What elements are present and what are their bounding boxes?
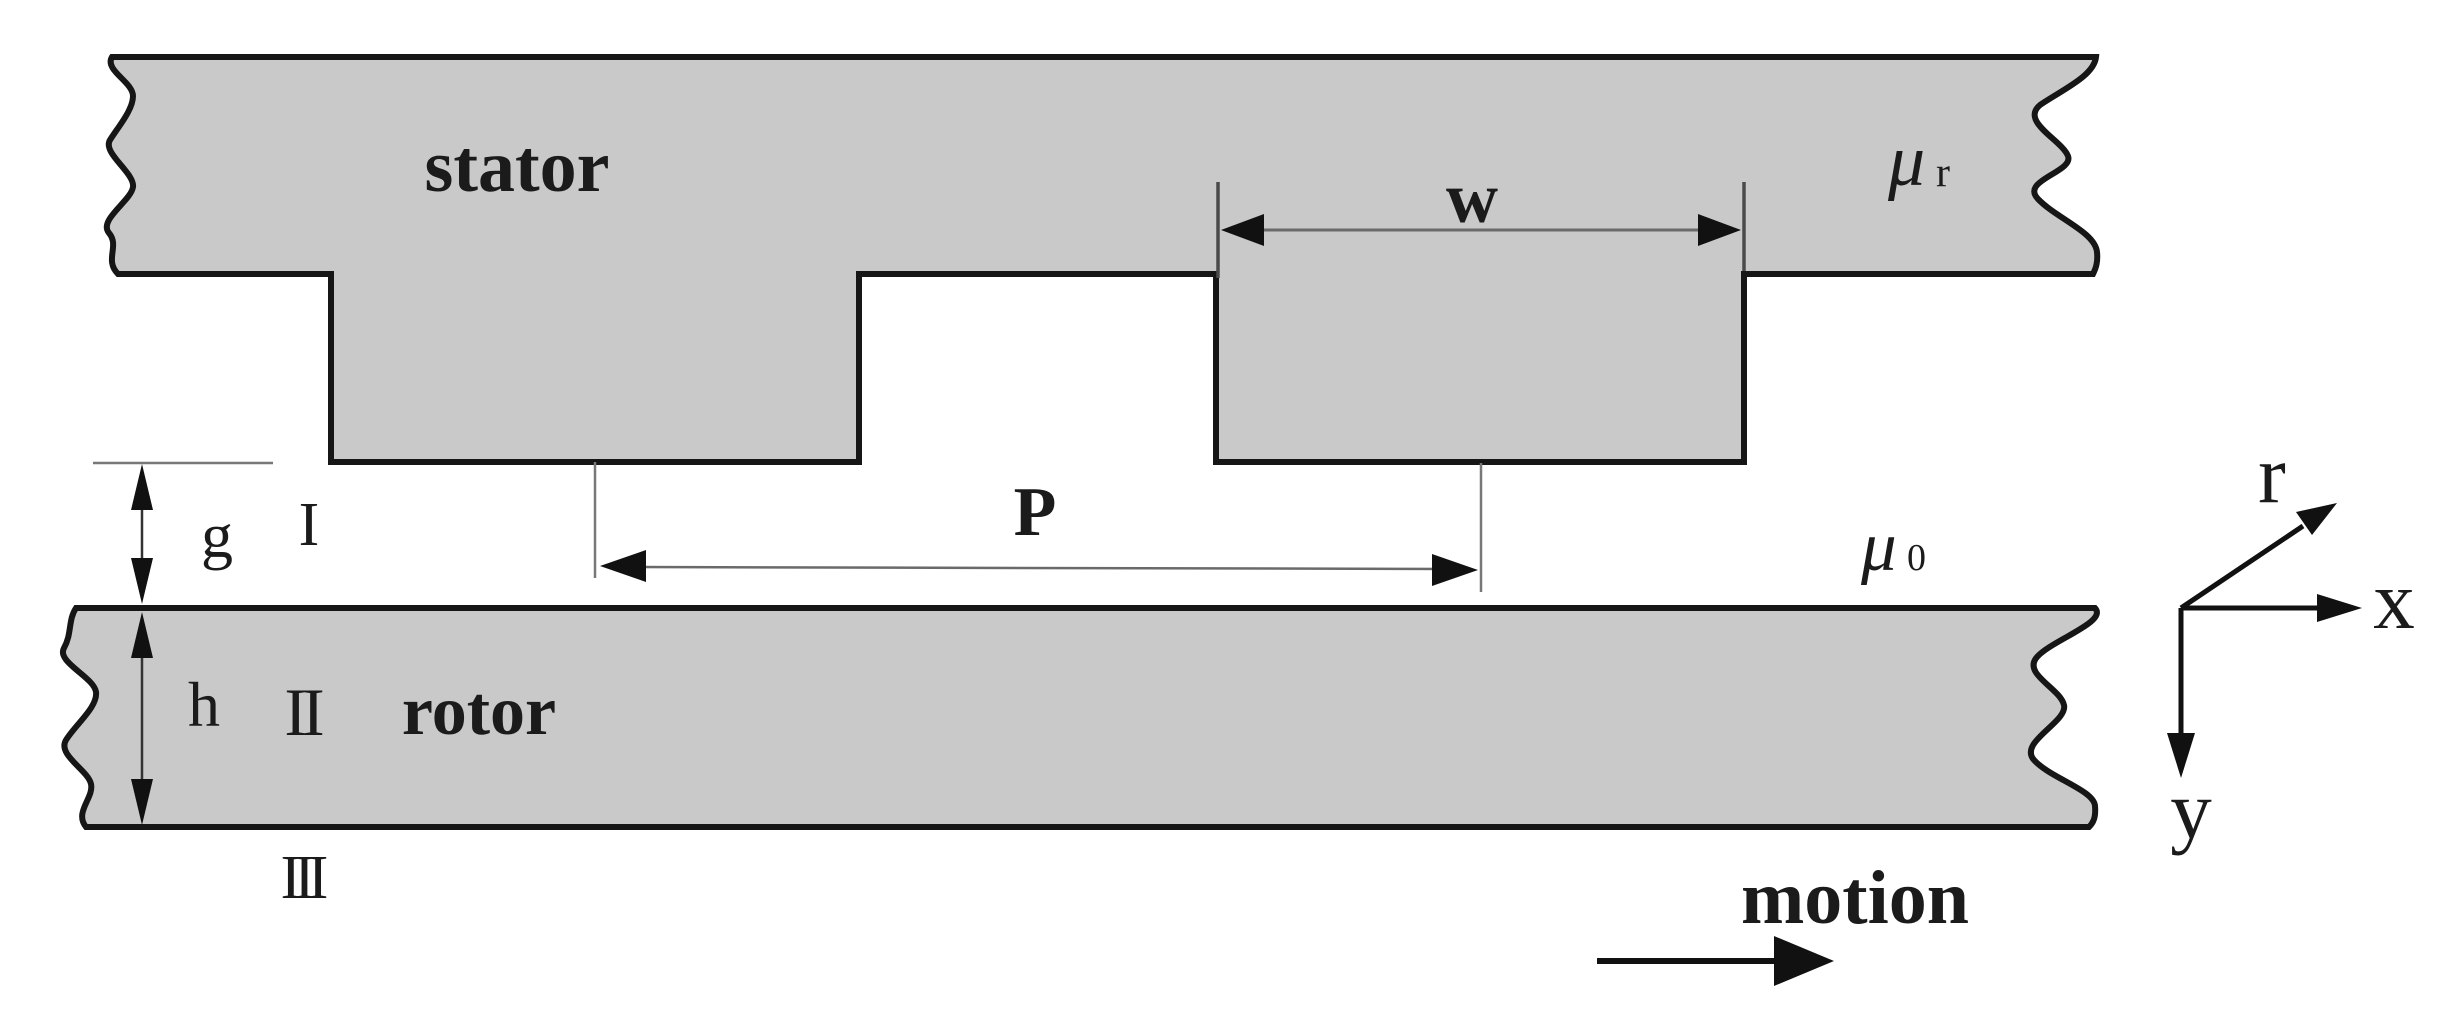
svg-text:μ: μ	[1860, 508, 1897, 586]
x-axis	[2181, 606, 2325, 611]
svg-text:rotor: rotor	[402, 673, 556, 750]
y-axis	[2179, 608, 2184, 740]
h dimension double arrow	[131, 612, 153, 825]
svg-text:0: 0	[1907, 537, 1926, 579]
coordinate axes	[2167, 503, 2362, 778]
rotor bar	[63, 608, 2097, 827]
w dimension arrow	[1221, 214, 1741, 246]
P dimension extension line left	[594, 462, 597, 578]
P dimension arrow	[600, 550, 1478, 586]
stator body with two teeth	[107, 57, 2097, 462]
svg-text:motion: motion	[1741, 856, 1969, 940]
svg-text:g: g	[201, 500, 233, 571]
r-axis	[2181, 526, 2303, 608]
svg-text:II: II	[284, 674, 323, 750]
svg-text:I: I	[299, 491, 320, 559]
svg-text:y: y	[2170, 764, 2212, 856]
w dimension tick right	[1742, 182, 1746, 271]
svg-text:w: w	[1446, 158, 1498, 238]
g dimension double arrow	[131, 464, 153, 604]
svg-text:r: r	[2258, 428, 2286, 520]
g dimension tick line	[93, 462, 273, 465]
svg-text:r: r	[1936, 150, 1950, 196]
svg-text:μ: μ	[1887, 120, 1925, 202]
svg-text:h: h	[188, 669, 220, 740]
w dimension tick left	[1216, 182, 1220, 278]
svg-text:stator: stator	[425, 126, 610, 208]
P dimension extension line right	[1480, 463, 1483, 592]
svg-text:P: P	[1014, 474, 1057, 551]
svg-text:III: III	[281, 844, 327, 912]
svg-text:x: x	[2373, 554, 2415, 646]
motion arrow	[1597, 936, 1834, 986]
